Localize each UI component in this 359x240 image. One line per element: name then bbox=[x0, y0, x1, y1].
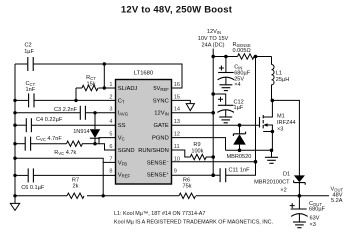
node bus-VFB bbox=[13, 157, 16, 160]
svg-text:SENSE+: SENSE+ bbox=[147, 171, 170, 179]
capacitor CIN bbox=[218, 57, 251, 89]
node R9/12V bbox=[211, 155, 215, 159]
svg-text:R7: R7 bbox=[72, 177, 79, 183]
diode 1N914 bbox=[73, 113, 100, 144]
svg-text:2k: 2k bbox=[73, 184, 79, 190]
svg-text:CCT: CCT bbox=[26, 81, 36, 87]
svg-text:75k: 75k bbox=[182, 184, 191, 190]
svg-text:IRFZ44: IRFZ44 bbox=[277, 120, 296, 126]
node rail/SENSE riser bbox=[254, 55, 258, 59]
ground (C12 bars) bbox=[219, 117, 232, 123]
svg-text:C2: C2 bbox=[25, 43, 32, 49]
wire VC compensation row bbox=[15, 143, 95, 145]
node bus-VC bbox=[13, 142, 16, 145]
capacitor C11 bbox=[220, 167, 250, 182]
capacitor C3 bbox=[54, 106, 85, 120]
node SENSE- riser tap bbox=[254, 160, 258, 164]
capacitor CVC bbox=[25, 136, 62, 151]
svg-text:RVC 4.7k: RVC 4.7k bbox=[54, 150, 76, 156]
svg-text:25µH: 25µH bbox=[276, 77, 290, 83]
inductor L1 bbox=[272, 57, 290, 101]
svg-text:SENSE−: SENSE− bbox=[147, 159, 170, 167]
svg-text:8: 8 bbox=[109, 169, 112, 175]
wire pin6 SGND jog bbox=[99, 144, 116, 150]
svg-text:×2: ×2 bbox=[280, 188, 286, 194]
svg-text:12VIN: 12VIN bbox=[154, 111, 169, 117]
node 12V rail start bbox=[211, 55, 215, 59]
svg-text:16: 16 bbox=[174, 82, 180, 88]
resistor R6 bbox=[179, 177, 196, 198]
svg-text:MBR20100CT: MBR20100CT bbox=[254, 179, 290, 185]
transistor M1 bbox=[260, 100, 296, 150]
svg-text:×3: ×3 bbox=[277, 126, 283, 132]
capacitor C4 bbox=[26, 117, 63, 132]
svg-text:VREF: VREF bbox=[118, 173, 131, 179]
node C12 tap bbox=[211, 92, 215, 96]
node 12VIN input bbox=[198, 29, 229, 57]
svg-text:6: 6 bbox=[109, 144, 112, 150]
node 5VREF/SL-ADJ junction bbox=[103, 62, 106, 65]
node bus-IAVG bbox=[13, 111, 16, 114]
svg-text:11: 11 bbox=[174, 144, 180, 150]
note L1 footnote bbox=[114, 211, 273, 225]
node RCT/CT junction bbox=[74, 99, 77, 102]
capacitor CCT bbox=[26, 81, 36, 108]
node bus-CT bbox=[13, 99, 16, 102]
svg-text:12V to 48V, 250W Boost: 12V to 48V, 250W Boost bbox=[121, 4, 233, 15]
resistor R7 bbox=[67, 177, 84, 198]
svg-text:C11 1nF: C11 1nF bbox=[229, 167, 251, 173]
wire drain to D1 bbox=[272, 100, 299, 175]
svg-text:10V TO 15V: 10V TO 15V bbox=[198, 36, 229, 42]
svg-text:1nF: 1nF bbox=[26, 87, 36, 93]
wire pin10 SENSE- bbox=[172, 161, 256, 163]
wire pin5 VC jog bbox=[95, 138, 116, 144]
node source-gnd bbox=[270, 149, 274, 153]
node bus-bottom bbox=[13, 194, 16, 197]
wire VFB riser to divider bbox=[102, 162, 104, 195]
node VC junction bbox=[93, 142, 96, 145]
svg-text:CIN: CIN bbox=[234, 64, 242, 70]
svg-text:24A (DC): 24A (DC) bbox=[201, 43, 224, 49]
resistor RSENSE bbox=[233, 42, 255, 59]
node drain junction bbox=[271, 99, 275, 103]
wire pin7 VFB row bbox=[15, 158, 116, 162]
wire pin3 IAVG row bbox=[15, 112, 116, 114]
wire pin4 SS row bbox=[15, 124, 116, 126]
svg-text:SL/ADJ: SL/ADJ bbox=[118, 86, 138, 92]
svg-text:100k: 100k bbox=[191, 148, 203, 154]
node M1 source/body bbox=[271, 130, 275, 134]
capacitor C2 bbox=[24, 43, 34, 71]
svg-text:5.2A: 5.2A bbox=[331, 198, 343, 204]
node IAVG/diode junction bbox=[93, 111, 96, 114]
diode D1 bbox=[254, 171, 305, 196]
ground (SYNC, open triangle) bbox=[186, 104, 194, 111]
svg-text:63V: 63V bbox=[310, 215, 320, 221]
svg-text:×3: ×3 bbox=[310, 222, 316, 228]
svg-text:13: 13 bbox=[174, 119, 180, 125]
node divider tap bbox=[102, 194, 105, 197]
pin numbers right bbox=[174, 82, 180, 175]
pin labels right inside bbox=[138, 86, 169, 179]
wire 12V riser bbox=[212, 57, 214, 176]
svg-text:C3 2.2nF: C3 2.2nF bbox=[54, 107, 78, 113]
svg-text:680µF: 680µF bbox=[309, 206, 326, 212]
wire source rail bbox=[226, 149, 272, 151]
svg-text:D1: D1 bbox=[283, 171, 290, 177]
svg-text:0.005Ω: 0.005Ω bbox=[233, 48, 251, 54]
node 12VIN pin tap bbox=[211, 111, 215, 115]
node SENSE+/12V riser bbox=[211, 173, 215, 177]
ground (M1 source bars) bbox=[265, 150, 278, 163]
wire pin9 SENSE+ bbox=[172, 57, 256, 176]
node pin1 junction bbox=[103, 86, 106, 89]
svg-text:RSENSE: RSENSE bbox=[233, 42, 251, 48]
resistor R9 bbox=[190, 142, 213, 160]
svg-text:4: 4 bbox=[109, 119, 112, 125]
svg-text:R9: R9 bbox=[193, 142, 200, 148]
wire PGND bbox=[172, 138, 226, 151]
svg-text:1µF: 1µF bbox=[24, 49, 34, 55]
node D1/output rail bbox=[298, 194, 302, 198]
svg-text:SS: SS bbox=[118, 123, 126, 129]
svg-text:RCT: RCT bbox=[86, 75, 96, 81]
wire pin2 CT row bbox=[15, 99, 116, 101]
wire pin1 stub bbox=[104, 87, 115, 89]
pin labels left inside bbox=[118, 86, 138, 179]
resistor RVC bbox=[54, 141, 82, 156]
node bus-SS bbox=[13, 124, 16, 127]
svg-text:CT: CT bbox=[118, 98, 125, 104]
svg-text:IAVG: IAVG bbox=[118, 111, 128, 117]
svg-text:VFB: VFB bbox=[118, 160, 127, 166]
svg-text:M1: M1 bbox=[277, 114, 285, 120]
svg-text:R6: R6 bbox=[183, 177, 190, 183]
wire SYNC stub bbox=[172, 100, 191, 103]
ground bus (left vertical GND bus) bbox=[14, 64, 16, 196]
svg-text:SGND: SGND bbox=[118, 148, 135, 154]
wire 12V top rail bbox=[213, 56, 271, 58]
wire GATE bbox=[172, 124, 260, 126]
svg-text:LT1680: LT1680 bbox=[134, 71, 153, 77]
pin numbers left bbox=[109, 82, 112, 175]
svg-text:PGND: PGND bbox=[152, 136, 169, 142]
wire 5VREF top net bbox=[15, 64, 182, 88]
svg-text:12VIN: 12VIN bbox=[207, 29, 221, 35]
svg-text:CVC 4.7nF: CVC 4.7nF bbox=[36, 136, 62, 142]
svg-text:Kool Mµ IS A REGISTERED TRADEM: Kool Mµ IS A REGISTERED TRADEMARK OF MAG… bbox=[114, 219, 273, 225]
svg-text:L1: Kool Mµ™, 18T #14 ON 77314: L1: Kool Mµ™, 18T #14 ON 77314-A7 bbox=[114, 211, 205, 217]
svg-text:VC: VC bbox=[118, 136, 125, 142]
node gate clamp tap bbox=[238, 123, 242, 127]
svg-text:15: 15 bbox=[174, 94, 180, 100]
node MBR0520 anode bbox=[238, 149, 242, 153]
ground (COUT bars) bbox=[293, 222, 306, 228]
diode MBR0520 bbox=[227, 125, 252, 160]
svg-text:MBR0520: MBR0520 bbox=[227, 154, 252, 160]
capacitor C12 bbox=[213, 94, 244, 117]
svg-text:1µF: 1µF bbox=[234, 105, 244, 111]
resistor RCT bbox=[76, 75, 104, 100]
node CIN tap bbox=[224, 55, 228, 59]
svg-text:C6 0.1µF: C6 0.1µF bbox=[21, 185, 45, 191]
op-amp U1 IC LT1680 body bbox=[116, 71, 172, 184]
wire bottom feedback rail bbox=[15, 195, 329, 197]
svg-text:7: 7 bbox=[109, 156, 112, 162]
svg-text:9: 9 bbox=[174, 169, 177, 175]
wire pin14 12VIN bbox=[172, 112, 214, 114]
svg-text:5: 5 bbox=[109, 132, 112, 138]
capacitor C6 bbox=[21, 168, 45, 191]
capacitor COUT bbox=[290, 196, 326, 228]
svg-text:5VREF: 5VREF bbox=[153, 86, 169, 92]
svg-text:1N914: 1N914 bbox=[73, 129, 89, 135]
svg-text:GATE: GATE bbox=[153, 123, 168, 129]
svg-text:L1: L1 bbox=[276, 70, 282, 76]
wire pin8 VREF row bbox=[15, 174, 116, 176]
svg-text:12: 12 bbox=[174, 132, 180, 138]
svg-text:RUN/SHDN: RUN/SHDN bbox=[138, 148, 169, 154]
wire SL/ADJ drop bbox=[103, 64, 105, 88]
svg-text:SYNC: SYNC bbox=[153, 98, 169, 104]
svg-text:14: 14 bbox=[174, 107, 180, 113]
svg-text:1: 1 bbox=[109, 82, 112, 88]
node VOUT label bbox=[331, 187, 344, 204]
node bus-VREF bbox=[13, 174, 16, 177]
svg-text:3: 3 bbox=[109, 107, 112, 113]
ground (CIN bars) bbox=[219, 85, 232, 91]
svg-text:2: 2 bbox=[109, 94, 112, 100]
wire pin11 RUN/SHDN bbox=[172, 150, 191, 157]
svg-text:C4 0.22µF: C4 0.22µF bbox=[36, 117, 63, 123]
svg-text:×4: ×4 bbox=[234, 82, 240, 88]
svg-text:15k: 15k bbox=[86, 81, 95, 87]
ground (bus, open triangle) bbox=[10, 196, 19, 211]
